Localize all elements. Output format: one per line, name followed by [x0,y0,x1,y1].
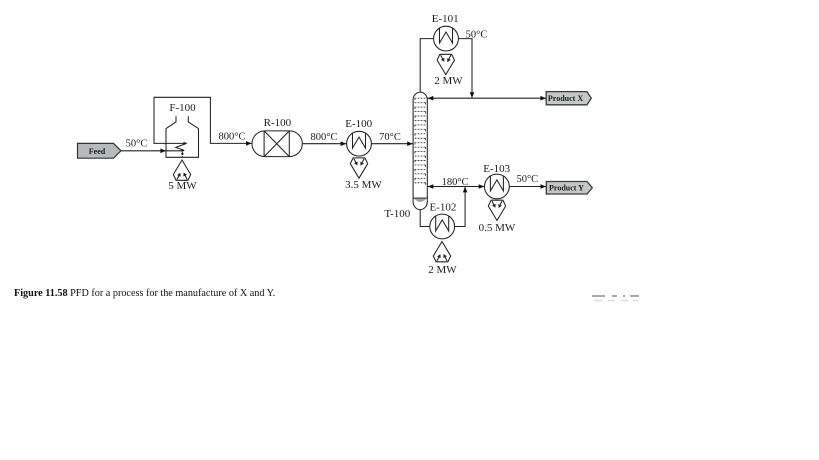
wire E-100 to T-100 [371,143,413,145]
svg-text:Figure 11.58 PFD for a proces: Figure 11.58 PFD for a process for the m… [14,288,275,299]
svg-text:F-100: F-100 [169,102,196,114]
heat exchanger E-100 [347,131,372,156]
faint cropped page fragment bottom right [592,295,639,297]
energy arrow 2 MW reboiler [433,241,450,261]
burner arrow [181,153,183,157]
svg-text:R-100: R-100 [264,117,292,129]
wire E-101 outlet down to header [458,39,472,98]
svg-text:50°C: 50°C [516,174,538,185]
svg-text:70°C: 70°C [379,132,401,143]
wire F-100 outlet loop to R-100 [154,97,252,143]
product stream banner Product X [546,92,591,105]
energy arrow 0.5 MW [488,200,505,220]
heat exchanger E-103 [485,174,510,199]
wire E-103 to Product Y [509,186,546,188]
wire R-100 to E-100 [302,143,346,145]
svg-text:2 MW: 2 MW [434,75,463,87]
wire T-100 top to E-101 [420,39,433,93]
reactor R-100 [252,131,302,157]
svg-text:180°C: 180°C [442,177,469,188]
wire T-100 bottom to E-102 [420,210,430,227]
svg-text:Product Y: Product Y [549,183,584,192]
furnace F-100 [166,116,199,157]
svg-text:2 MW: 2 MW [428,264,457,276]
product stream banner Product Y [546,182,592,195]
wire bottoms header column to E-103 [427,186,484,188]
column trays [415,98,426,184]
svg-text:5 MW: 5 MW [168,180,197,192]
svg-text:E-102: E-102 [429,201,456,213]
svg-text:0.5 MW: 0.5 MW [479,222,516,234]
feed stream banner Feed [78,143,122,158]
column T-100 [413,92,427,210]
condenser E-101 [434,26,459,51]
svg-text:Feed: Feed [89,147,106,156]
reboiler E-102 [430,214,455,239]
column bottom liquid [414,197,427,199]
svg-text:3.5 MW: 3.5 MW [345,179,382,191]
wire E-102 outlet up to bottoms header [455,187,466,227]
furnace coil zigzag [176,143,187,150]
svg-text:800°C: 800°C [311,132,338,143]
wire distillate header to Product X and reflux [427,97,546,99]
energy arrow 5 MW [173,160,190,180]
svg-text:E-100: E-100 [345,118,372,130]
svg-text:Product X: Product X [548,94,583,103]
svg-text:T-100: T-100 [384,208,410,220]
svg-text:50°C: 50°C [466,29,488,40]
svg-text:E-101: E-101 [432,13,459,25]
wire feed to F-100 [121,150,183,152]
svg-text:E-103: E-103 [483,163,510,175]
svg-text:50°C: 50°C [126,139,148,150]
svg-text:800°C: 800°C [219,132,246,143]
energy arrow 3.5 MW [350,158,367,178]
energy arrow 2 MW condenser [437,54,454,74]
